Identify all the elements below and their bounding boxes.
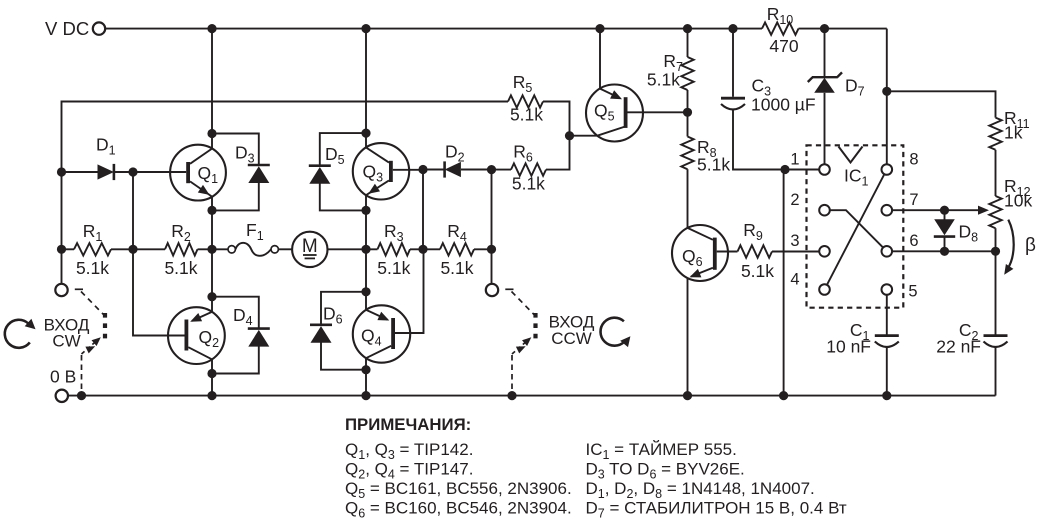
transistor Q6 xyxy=(672,225,728,396)
svg-text:3: 3 xyxy=(790,232,799,250)
transistor Q4 xyxy=(353,249,424,362)
motor M xyxy=(292,232,327,267)
svg-text:D7 = СТАБИЛИТРОН 15 В, 0.4 Вт: D7 = СТАБИЛИТРОН 15 В, 0.4 Вт xyxy=(586,499,847,521)
svg-text:5.1k: 5.1k xyxy=(697,155,730,175)
IC1 555 timer dashed box xyxy=(807,145,904,307)
svg-text:5.1k: 5.1k xyxy=(647,70,680,90)
svg-text:1k: 1k xyxy=(1004,123,1023,143)
svg-text:22 nF: 22 nF xyxy=(936,337,981,357)
diode D6 xyxy=(310,292,366,370)
svg-text:V DC: V DC xyxy=(45,18,89,39)
wire ground branch x783 xyxy=(783,170,785,396)
IC1 pin 2 xyxy=(790,191,829,216)
junction dots bottom rail xyxy=(77,391,892,400)
wire Q1 base column x133 xyxy=(132,172,134,249)
svg-text:10 nF: 10 nF xyxy=(826,337,871,357)
wire bottom ground rail xyxy=(68,395,996,397)
wire x212 column xyxy=(211,29,213,396)
svg-text:5.1k: 5.1k xyxy=(440,258,473,278)
resistor R8 xyxy=(681,137,730,228)
wire Q3 base column x423 xyxy=(422,170,424,250)
svg-text:10k: 10k xyxy=(1004,191,1032,211)
diode D3 xyxy=(212,134,270,211)
resistor R4 xyxy=(440,221,474,278)
resistor R7 xyxy=(647,29,694,137)
switch input CCW xyxy=(486,284,536,392)
wire R5/R6 junction column xyxy=(543,102,597,170)
transistor Q1 xyxy=(133,145,226,201)
IC1 pin 3 xyxy=(790,232,829,257)
svg-text:β: β xyxy=(1025,235,1036,256)
svg-text:0 В: 0 В xyxy=(50,367,76,387)
svg-text:1: 1 xyxy=(790,151,799,169)
zener diode D7 xyxy=(808,29,865,165)
svg-text:CCW: CCW xyxy=(551,329,592,348)
diode D1 xyxy=(62,135,134,181)
wire mid horizontal rail xyxy=(62,248,492,250)
junction dots x212 column xyxy=(207,129,216,378)
transistor Q2 xyxy=(133,249,225,364)
svg-text:5.1k: 5.1k xyxy=(512,174,545,194)
wire left rail to R5 xyxy=(62,102,509,284)
terminal 0V xyxy=(50,367,76,402)
resistor R3 xyxy=(377,221,410,278)
IC1 pin 1 xyxy=(790,151,829,175)
wire x366 column xyxy=(365,29,367,396)
svg-text:5.1k: 5.1k xyxy=(510,105,543,125)
potentiometer R12 xyxy=(978,176,1032,335)
IC1 pin 4 xyxy=(790,271,829,295)
switch input CW xyxy=(55,284,105,392)
junction dots right area xyxy=(780,87,1000,256)
wire top supply rail xyxy=(105,28,886,30)
diode D8 xyxy=(934,210,978,251)
resistor R5 xyxy=(508,72,543,125)
svg-text:7: 7 xyxy=(909,191,918,209)
svg-text:M: M xyxy=(302,236,318,257)
resistor R6 xyxy=(492,142,547,194)
resistor R1 xyxy=(74,221,111,278)
svg-text:6: 6 xyxy=(909,232,918,250)
notes heading xyxy=(345,415,471,434)
capacitor C1 xyxy=(826,320,899,396)
svg-text:8: 8 xyxy=(909,151,918,169)
svg-text:1000 µF: 1000 µF xyxy=(751,95,816,115)
IC1 pin 6 xyxy=(882,232,996,257)
IC1 pin 5 xyxy=(882,283,918,336)
notes column 2 xyxy=(586,440,847,520)
diode D5 xyxy=(309,133,366,210)
diode D4 xyxy=(212,297,270,374)
notes column 1 xyxy=(345,440,572,520)
diode D2 xyxy=(423,142,492,178)
fuse F1 xyxy=(228,220,278,256)
IC1 internal wire pin8 to pin4 xyxy=(827,174,885,285)
svg-text:ПРИМЕЧАНИЯ:: ПРИМЕЧАНИЯ: xyxy=(345,415,471,434)
resistor R2 xyxy=(164,221,197,278)
svg-text:4: 4 xyxy=(790,271,799,289)
resistor R11 xyxy=(989,108,1029,196)
svg-text:2: 2 xyxy=(790,191,799,209)
capacitor C2 xyxy=(936,320,1007,396)
terminal V DC xyxy=(45,18,105,39)
resistor R10 xyxy=(762,4,799,56)
junction dots top rail xyxy=(207,24,829,33)
IC1 pin 7 xyxy=(882,191,979,216)
junction dots mid rail xyxy=(57,245,496,254)
svg-text:CW: CW xyxy=(52,332,80,351)
svg-text:Q6 = BC160, BC546, 2N3904.: Q6 = BC160, BC546, 2N3904. xyxy=(345,499,572,521)
svg-text:5.1k: 5.1k xyxy=(741,261,774,281)
transistor Q5 xyxy=(586,29,688,142)
svg-text:5.1k: 5.1k xyxy=(377,258,410,278)
svg-text:470: 470 xyxy=(769,36,798,56)
svg-text:5.1k: 5.1k xyxy=(76,258,109,278)
label ВХОД CCW with rotation arrow xyxy=(549,313,631,349)
wire top right corner to pin 8 xyxy=(887,29,996,165)
resistor R9 xyxy=(717,220,820,281)
junction dots x366 column xyxy=(361,129,370,375)
label ВХОД CW with rotation arrow xyxy=(5,316,90,351)
capacitor C3 xyxy=(721,29,819,170)
IC1 internal wire pin2 to pin6 xyxy=(830,210,883,247)
IC1 pin 8 xyxy=(882,151,919,175)
junction dots mid nodes xyxy=(57,108,692,177)
beta adjustment arrow xyxy=(1004,220,1036,275)
svg-text:5: 5 xyxy=(908,283,917,301)
transistor Q3 xyxy=(353,143,423,199)
svg-text:5.1k: 5.1k xyxy=(164,258,197,278)
wire D2 node column x491 xyxy=(491,170,493,284)
